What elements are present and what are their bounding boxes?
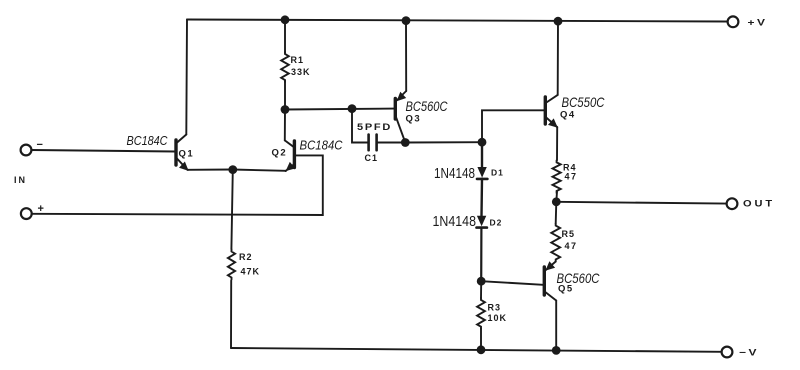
wire R4 bottom to OUT node xyxy=(555,192,558,202)
svg-text:R5: R5 xyxy=(562,229,576,239)
svg-text:D2: D2 xyxy=(490,218,503,228)
wire D1 to D2 xyxy=(480,179,483,216)
svg-text:BC184C: BC184C xyxy=(300,138,343,153)
wire Q4 emitter to R4 xyxy=(556,127,558,160)
wire R1 node to Q3 base xyxy=(285,108,394,111)
terminal +V xyxy=(728,16,739,27)
node C1 tap xyxy=(348,104,357,113)
transistor Q4 BC550C xyxy=(545,95,558,128)
svg-text:R3: R3 xyxy=(488,303,502,313)
terminal OUT xyxy=(727,198,738,209)
svg-text:47K: 47K xyxy=(241,267,261,277)
terminal -IN xyxy=(21,145,32,156)
svg-text:OUT: OUT xyxy=(743,199,775,210)
svg-text:C1: C1 xyxy=(365,153,379,163)
svg-text:Q2: Q2 xyxy=(272,148,288,159)
node R3--V xyxy=(477,345,486,354)
wire C1 branch down xyxy=(352,109,368,143)
wire D2 to Q5 base node xyxy=(480,228,482,282)
svg-text:IN: IN xyxy=(14,175,27,185)
node Q5c--V xyxy=(552,346,561,355)
wire C1 to Q3 collector node xyxy=(378,142,406,144)
svg-text:47: 47 xyxy=(565,172,578,182)
svg-text:10K: 10K xyxy=(488,313,508,323)
svg-text:D1: D1 xyxy=(491,168,504,178)
node D1 top xyxy=(478,138,487,147)
wire R3 bottom to -V rail xyxy=(480,329,482,350)
wire R1 bottom to node xyxy=(284,81,286,110)
wire OUT node to R5 top xyxy=(555,202,558,224)
svg-text:Q4: Q4 xyxy=(560,110,576,121)
node R1-Q2c xyxy=(281,105,290,114)
terminal +IN xyxy=(21,208,32,219)
wire Q5 base node to R3 xyxy=(480,281,482,298)
wire Q1 emitter to tail node xyxy=(188,169,233,171)
wire rail to R1 top xyxy=(284,20,286,53)
wire Q3 collector node to D1 node xyxy=(405,141,482,143)
svg-text:Q3: Q3 xyxy=(406,114,422,125)
wire bottom -V rail xyxy=(231,348,722,352)
svg-text:+: + xyxy=(38,203,44,215)
wire -IN to Q1 base xyxy=(32,150,176,152)
svg-text:BC560C: BC560C xyxy=(406,99,448,114)
resistor R3 10K xyxy=(477,298,485,329)
svg-text:47: 47 xyxy=(565,241,578,251)
svg-text:1N4148: 1N4148 xyxy=(433,214,477,230)
svg-text:33K: 33K xyxy=(291,67,311,77)
svg-text:−V: −V xyxy=(739,348,759,359)
svg-text:+V: +V xyxy=(748,18,768,29)
diode D1 1N4148 xyxy=(477,167,486,178)
wire R2 bottom to -V rail xyxy=(230,281,232,349)
wire Q4 collector riser to rail xyxy=(557,21,559,95)
wire Q5 base node to Q5 base xyxy=(481,281,543,285)
capacitor C1 5PFD xyxy=(369,135,377,151)
svg-text:−: − xyxy=(37,139,43,151)
wire Q2 emitter to tail node xyxy=(233,170,286,171)
wire Q3 emitter riser to rail xyxy=(405,21,407,92)
wire D1 node down to D1 xyxy=(481,142,483,167)
resistor R5 47 xyxy=(551,224,560,262)
wire top +V rail xyxy=(187,20,728,22)
node Q5 base xyxy=(477,277,486,286)
svg-text:Q1: Q1 xyxy=(179,149,195,160)
svg-text:R2: R2 xyxy=(239,252,253,262)
wire Q2 collector riser xyxy=(284,110,286,141)
resistor R2 47K xyxy=(228,250,235,280)
transistor Q2 BC184C xyxy=(285,140,296,171)
node OUT xyxy=(552,197,561,206)
node rail-R1 xyxy=(281,15,290,24)
node rail-Q3e xyxy=(402,16,411,25)
transistor Q1 BC184C xyxy=(176,135,189,171)
svg-text:5PFD: 5PFD xyxy=(357,122,392,133)
wire D1 node up and right to Q4 base xyxy=(482,110,544,142)
svg-text:BC184C: BC184C xyxy=(127,133,168,148)
svg-text:Q5: Q5 xyxy=(558,284,574,295)
wire OUT node to OUT terminal xyxy=(556,202,726,204)
transistor Q3 BC560C (PNP) xyxy=(395,91,406,143)
node rail-Q4c xyxy=(554,17,563,26)
resistor R4 47 xyxy=(553,160,561,193)
diode D2 1N4148 xyxy=(477,216,486,227)
transistor Q5 BC560C (PNP) xyxy=(544,261,556,300)
node Q3 collector xyxy=(401,138,410,147)
svg-text:1N4148: 1N4148 xyxy=(434,166,475,182)
svg-text:R1: R1 xyxy=(291,55,305,65)
terminal -V xyxy=(722,347,733,358)
node tail xyxy=(228,165,237,174)
svg-text:BC550C: BC550C xyxy=(562,95,606,110)
wire +IN to Q2 base xyxy=(32,155,323,215)
resistor R1 33K xyxy=(281,52,289,82)
wire tail node down to R2 xyxy=(231,170,232,250)
wire Q5 collector to -V rail xyxy=(555,301,557,351)
wire Q1 collector riser xyxy=(185,20,188,135)
